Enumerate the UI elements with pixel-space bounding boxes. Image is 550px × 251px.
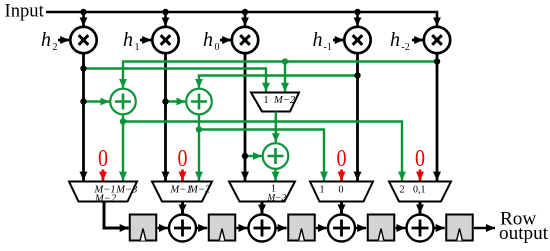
wire B2 to D3 bbox=[277, 227, 287, 230]
wire row output arrow bbox=[474, 227, 495, 230]
wire h-1 arrow bbox=[333, 39, 344, 42]
wire D2 to B2 bbox=[237, 227, 248, 230]
wire adder A3 output to mux3 bbox=[274, 169, 276, 181]
svg-text:h: h bbox=[313, 29, 323, 51]
wire mux5 output to adder B4 bbox=[419, 202, 422, 214]
wire L1 branch down to delay selector right input bbox=[284, 62, 286, 92]
wire B3 to D4 bbox=[356, 227, 366, 230]
wire h1 arrow bbox=[140, 39, 151, 42]
svg-text:0,1: 0,1 bbox=[413, 185, 426, 196]
svg-text:output: output bbox=[499, 223, 549, 244]
node line A junction bbox=[120, 118, 126, 124]
svg-text:2: 2 bbox=[53, 42, 58, 53]
multiplier h1 bbox=[152, 27, 178, 53]
node L2 tap on h2 line bbox=[80, 65, 86, 71]
multiplier h-1 bbox=[344, 27, 370, 53]
svg-text:h: h bbox=[203, 29, 213, 51]
wire h2 arrow bbox=[58, 39, 69, 42]
node tap h2 at A1 bbox=[80, 98, 86, 104]
wire green L2 from h2 tap to delay selector left input bbox=[84, 69, 267, 92]
wire mux3 output to adder B2 bbox=[261, 202, 264, 214]
adder A2 bbox=[186, 89, 212, 115]
mux4 bbox=[310, 182, 373, 202]
svg-text:M−3: M−3 bbox=[115, 185, 137, 196]
svg-text:M−2: M−2 bbox=[188, 185, 211, 196]
svg-text:h: h bbox=[123, 29, 133, 51]
mux1 bbox=[69, 182, 137, 205]
svg-text:M−2: M−2 bbox=[267, 193, 287, 203]
svg-text:1: 1 bbox=[264, 95, 269, 106]
wire mux1 output elbow to register D1 bbox=[104, 202, 129, 229]
register D1 bbox=[130, 215, 157, 241]
label h-1 bbox=[313, 29, 332, 53]
label h-2 bbox=[390, 29, 410, 53]
node tap h0 at A3 bbox=[242, 153, 248, 159]
adder B1 bbox=[169, 215, 196, 242]
mux2 bbox=[152, 182, 212, 202]
svg-text:2: 2 bbox=[400, 185, 405, 196]
register D2 bbox=[209, 215, 236, 241]
svg-text:h: h bbox=[390, 29, 400, 51]
node L1 tap on h-2 line bbox=[434, 58, 440, 64]
adder A1 bbox=[110, 89, 136, 115]
node tap h1 at A2 bbox=[162, 98, 168, 104]
adder A3 bbox=[263, 143, 289, 169]
mux5 bbox=[389, 182, 451, 202]
wire mux2 output to adder B1 bbox=[181, 202, 184, 214]
svg-text:1: 1 bbox=[135, 42, 140, 53]
multiplier h2 bbox=[70, 27, 96, 53]
wire h1 tap to adder A2 left bbox=[166, 100, 186, 102]
svg-text:0: 0 bbox=[339, 185, 344, 196]
wire h2 tap to adder A1 left bbox=[84, 100, 110, 102]
node input taps bbox=[80, 9, 360, 15]
wire red zero arrow mux5 bbox=[419, 170, 422, 181]
multiplier h0 bbox=[232, 27, 258, 53]
wire B4 to D5 bbox=[435, 227, 445, 230]
wire h0 tap to adder A3 left bbox=[245, 155, 262, 157]
node L3 tap on h-1 line bbox=[354, 72, 360, 78]
wire adder A1 output down to mux1 bbox=[122, 114, 124, 180]
wire D1 to B1 bbox=[158, 227, 168, 230]
delay selector (1 / M-2) bbox=[251, 93, 299, 112]
wire D4 to B4 bbox=[396, 227, 406, 230]
wire input bus bbox=[46, 12, 437, 26]
wire mux4 output to adder B3 bbox=[340, 202, 343, 214]
wire line A from A1 output to mux5 bbox=[123, 122, 402, 181]
node line B junction bbox=[196, 126, 202, 132]
svg-text:0: 0 bbox=[337, 146, 347, 172]
wire line B from A2 output to mux4 bbox=[199, 130, 324, 181]
svg-text:0: 0 bbox=[215, 42, 220, 53]
wire D3 to B3 bbox=[316, 227, 327, 230]
svg-text:1: 1 bbox=[320, 185, 325, 196]
register D3 bbox=[288, 215, 315, 241]
register D5 bbox=[446, 215, 473, 241]
wire h0 arrow bbox=[220, 39, 231, 42]
multiplier h-2 bbox=[424, 27, 450, 53]
wire h0 product vertical bbox=[244, 53, 247, 180]
wire delay selector output to adder A3 top bbox=[275, 112, 277, 143]
wire green L1 from h-2 tap to adder A1 top bbox=[123, 62, 437, 88]
wire h2 product vertical bbox=[82, 53, 85, 180]
label h0 bbox=[203, 29, 220, 53]
label h1 bbox=[123, 29, 140, 53]
mux3 bbox=[229, 182, 295, 204]
register D4 bbox=[368, 215, 395, 241]
svg-text:-2: -2 bbox=[402, 42, 410, 53]
adder B2 bbox=[249, 215, 276, 242]
wire B1 to D2 bbox=[197, 227, 207, 230]
adder B3 bbox=[328, 215, 355, 242]
svg-text:0: 0 bbox=[98, 146, 108, 172]
wire h1 product vertical bbox=[164, 53, 167, 180]
label h2 bbox=[41, 29, 58, 53]
svg-text:0: 0 bbox=[415, 146, 425, 172]
wire h-2 arrow bbox=[412, 39, 423, 42]
node L1 branch junction bbox=[282, 58, 288, 64]
wire red zero arrow mux1 bbox=[102, 170, 105, 181]
wire h-2 product vertical bbox=[436, 53, 439, 180]
wire h-1 product vertical bbox=[356, 53, 359, 180]
adder B4 bbox=[407, 215, 434, 242]
wire red zero arrow mux2 bbox=[181, 170, 184, 181]
svg-text:Input: Input bbox=[5, 1, 45, 22]
wire adder A2 output down to mux2 bbox=[198, 114, 200, 180]
svg-text:h: h bbox=[41, 29, 51, 51]
svg-text:-1: -1 bbox=[324, 42, 332, 53]
wire green L3 from h-1 tap to adder A2 top bbox=[199, 76, 358, 88]
wire red zero arrow mux4 bbox=[340, 170, 343, 181]
svg-text:0: 0 bbox=[178, 146, 188, 172]
svg-text:M−2: M−2 bbox=[273, 95, 296, 106]
